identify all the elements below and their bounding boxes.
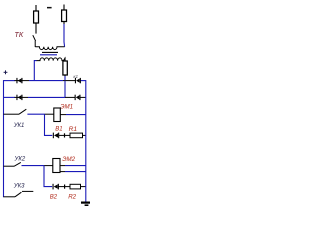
- wire (R1 to right column): [83, 134, 86, 136]
- connector contact X4 (row 2 right): [75, 95, 81, 100]
- wire (EM2 right lead to right column): [60, 165, 65, 167]
- wire row 3: [59, 134, 71, 136]
- transformer core line bottom: [40, 54, 57, 56]
- wire (tee down to row 4): [44, 166, 52, 187]
- svg-text:ЭМ1: ЭМ1: [60, 104, 73, 111]
- wire (tee down to row 3): [45, 114, 53, 135]
- electromagnet EM2: [53, 159, 60, 173]
- socket tick (row 4): [64, 185, 65, 189]
- switch UK2: [4, 165, 15, 167]
- wire (switch bottom lead to primary): [34, 41, 36, 47]
- transformer T1 secondary winding: [36, 58, 63, 61]
- wire (FU2 to primary right corner): [63, 24, 66, 47]
- fuse FU2 (top right): [62, 5, 67, 25]
- wire (EM2 bottom lead to right column): [60, 171, 65, 173]
- fuse FU1 (top left): [34, 5, 39, 34]
- svg-text:В1: В1: [55, 126, 62, 132]
- connector contact X1 (row 1 left): [16, 78, 22, 83]
- minus tick between fuse columns: [47, 7, 52, 8]
- right column wire: [85, 80, 87, 202]
- svg-text:R2: R2: [68, 194, 76, 201]
- wire (secondary left lead down to row 1): [34, 61, 36, 81]
- wire row 1: [4, 80, 16, 82]
- svg-text:R1: R1: [69, 126, 78, 133]
- wire (FU3 bottom to row 1): [64, 76, 66, 81]
- plus polarity mark: [4, 70, 8, 74]
- ground stub: [85, 204, 89, 206]
- svg-text:УК3: УК3: [13, 184, 25, 190]
- svg-text:В2: В2: [50, 194, 58, 200]
- transformer T1 primary winding: [35, 47, 64, 50]
- wire (secondary right end to FU3 top): [63, 58, 65, 61]
- wire (EM1 right lead to right column): [60, 114, 66, 116]
- heater connector E2 (row 4): [53, 184, 59, 190]
- heater connector E1 (row 3): [53, 133, 59, 139]
- transformer core line top: [42, 51, 58, 53]
- left bus wire: [3, 80, 5, 197]
- resistor R2: [70, 184, 81, 189]
- electromagnet EM1: [54, 108, 61, 122]
- switch UK3: [4, 196, 16, 198]
- chassis ground bar: [81, 202, 90, 204]
- wire row 4: [58, 186, 70, 188]
- resistor R1: [70, 133, 83, 138]
- fuse FU3 (middle column): [63, 58, 67, 77]
- wire (R2 to right column): [81, 186, 86, 188]
- socket tick (row 3): [64, 133, 65, 137]
- connector contact X2 (row 1 right): [75, 78, 81, 83]
- switch TK blade: [33, 35, 36, 41]
- wire row 2: [4, 96, 16, 98]
- wire (UK2 to EM2): [44, 165, 53, 167]
- svg-text:ТК: ТК: [14, 30, 24, 39]
- wire (middle column row1 to row2): [64, 81, 66, 98]
- switch UK1: [4, 113, 20, 115]
- svg-text:УК2: УК2: [14, 156, 26, 162]
- connector contact X3 (row 2 left): [16, 95, 22, 100]
- svg-text:ЭМ2: ЭМ2: [62, 156, 75, 163]
- wire (UK1 to EM1): [45, 113, 54, 115]
- svg-text:УК1: УК1: [13, 123, 25, 129]
